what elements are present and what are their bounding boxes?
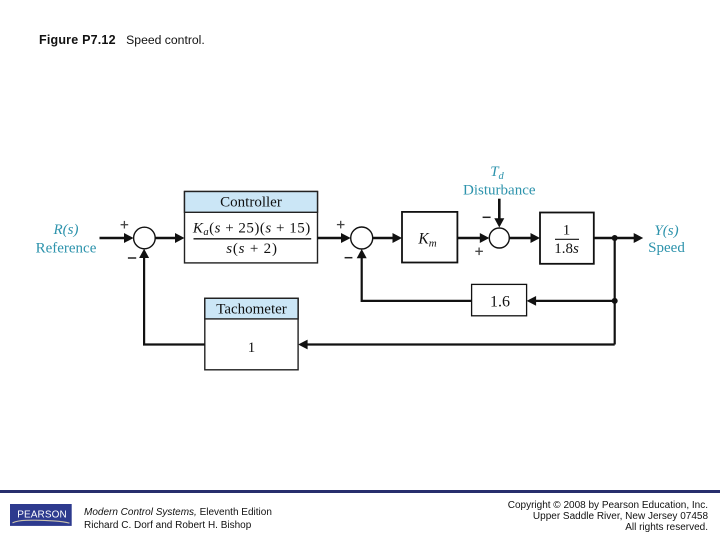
arrowhead into Km — [393, 233, 403, 243]
figure caption — [39, 33, 205, 47]
wire output node down to tachometer feedback — [614, 238, 616, 345]
svg-text:Disturbance: Disturbance — [463, 182, 536, 198]
svg-text:Y(s): Y(s) — [654, 223, 678, 239]
arrowhead into S1 bottom — [139, 249, 149, 258]
node Y(s) Speed label — [648, 223, 685, 256]
wire 1.6 to S2 bottom — [362, 257, 472, 301]
minus sign at S3 — [483, 216, 491, 218]
arrowhead into S2 bottom — [357, 249, 367, 258]
footer rule — [0, 490, 720, 493]
block Controller — [185, 192, 318, 263]
wire Km to summer S3 — [457, 237, 482, 240]
block Tachometer — [205, 298, 298, 370]
minus sign at S2 — [345, 257, 353, 259]
wire S3 to plant block — [509, 237, 532, 240]
plus sign at S3 — [475, 248, 483, 256]
arrowhead into S2 — [341, 233, 351, 243]
svg-text:Speed: Speed — [648, 240, 685, 256]
svg-text:1: 1 — [248, 340, 256, 356]
copyright — [508, 500, 708, 534]
wire branch into block 1.6 — [534, 300, 615, 302]
summing junction S1 — [134, 227, 156, 249]
node R(s) Reference label — [36, 222, 97, 256]
block 1/1.8s — [540, 213, 594, 264]
wire S2 to Km — [373, 237, 395, 240]
wire S1 to Controller — [155, 237, 177, 240]
summing junction S2 — [351, 227, 373, 249]
plus sign at S2 — [337, 221, 345, 229]
plus sign at S1 — [121, 221, 129, 229]
summing junction S3 — [489, 228, 509, 248]
svg-text:1.8s: 1.8s — [554, 241, 579, 257]
block Km — [402, 212, 457, 263]
arrowhead into Controller — [175, 233, 185, 243]
wire Controller to summer S2 — [318, 237, 344, 240]
svg-text:Ka(s + 25)(s + 15): Ka(s + 25)(s + 15) — [192, 221, 311, 239]
svg-text:Tachometer: Tachometer — [216, 302, 287, 318]
wire Td into S3 — [498, 199, 501, 221]
arrowhead into S3 top — [494, 218, 504, 227]
arrowhead into Tachometer — [298, 340, 308, 350]
arrowhead into plant block — [531, 233, 541, 243]
svg-text:Td: Td — [490, 164, 504, 182]
wire Tachometer to S1 bottom — [144, 256, 205, 344]
junction dot at output node — [612, 235, 618, 241]
svg-text:1: 1 — [563, 223, 571, 239]
book title — [84, 506, 272, 532]
minus sign at S1 — [128, 257, 136, 259]
arrowhead into 1.6 — [527, 296, 537, 306]
block 1.6 — [472, 284, 527, 315]
arrowhead into S3 — [480, 233, 490, 243]
svg-text:PEARSON: PEARSON — [17, 510, 67, 521]
wire R(s) to summer S1 — [100, 237, 127, 240]
wire plant to output Y(s) — [594, 237, 636, 240]
svg-text:R(s): R(s) — [53, 222, 79, 238]
junction dot at 1.6 branch — [612, 298, 618, 304]
svg-text:Controller: Controller — [220, 194, 282, 210]
arrowhead at output — [634, 233, 644, 243]
svg-text:1.6: 1.6 — [490, 293, 510, 310]
arrowhead into S1 — [124, 233, 134, 243]
node Td Disturbance label — [463, 164, 536, 198]
Pearson logo — [10, 504, 74, 528]
svg-text:s(s + 2): s(s + 2) — [226, 241, 278, 257]
svg-text:Reference: Reference — [36, 240, 97, 256]
wire tachometer feedback from output — [306, 343, 615, 345]
